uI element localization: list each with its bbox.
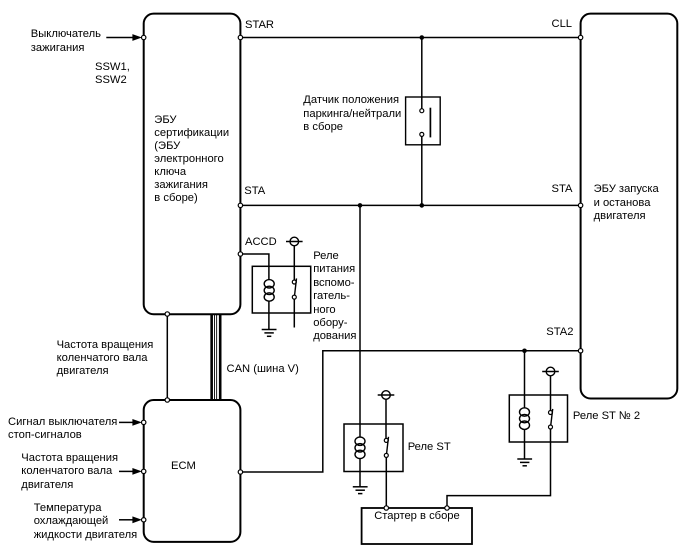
pin node STAR bbox=[238, 35, 242, 39]
pin node STA left bbox=[238, 203, 242, 207]
pin node starter from K2 bbox=[384, 506, 388, 510]
label K2 bbox=[408, 441, 451, 454]
junction STA to S1 bbox=[420, 203, 425, 208]
ECM U2 box bbox=[144, 400, 241, 542]
K3 coil L3 bbox=[520, 408, 530, 430]
label ECM bbox=[171, 460, 196, 473]
wire battery to K2 contact bbox=[385, 399, 387, 438]
label stop light signal bbox=[8, 416, 117, 442]
pin node ECM STA2 out bbox=[238, 470, 242, 474]
wire STA line bbox=[240, 204, 580, 206]
label crank speed upper bbox=[57, 339, 154, 378]
junction on STAR line bbox=[420, 35, 425, 40]
K2 coil L2 bbox=[355, 437, 365, 459]
crankshaft speed input arrow bbox=[119, 468, 142, 475]
pin node ECM crank speed bbox=[142, 469, 146, 473]
ECU U3 "ЭБУ запуска и останова двигателя" box bbox=[581, 14, 678, 399]
K3 battery terminal symbol bbox=[542, 367, 559, 376]
pin node ECM coolant bbox=[142, 518, 146, 522]
label K1 bbox=[313, 250, 356, 344]
park/neutral position switch S1 box bbox=[406, 97, 441, 145]
S1 contact circles and bar bbox=[420, 97, 431, 145]
net label SSW1 SSW2 bbox=[95, 61, 130, 88]
wire K3 contact to starter bbox=[447, 429, 551, 508]
wire S1 to STA line bbox=[421, 145, 423, 206]
label U3 bbox=[594, 183, 659, 224]
relay K2 "Реле ST" box bbox=[344, 424, 403, 472]
pin node ACCD bbox=[238, 252, 242, 256]
label CAN bus bbox=[227, 363, 299, 376]
wire K2 contact to starter bbox=[385, 457, 387, 508]
ground G1 bbox=[262, 330, 277, 337]
label crank speed lower bbox=[21, 452, 118, 492]
wire STAR line bbox=[240, 37, 580, 39]
pin node ECM stop light bbox=[142, 420, 146, 424]
relay K1 "Реле питания вспомогательного оборудования" box bbox=[252, 266, 310, 313]
K1 contact bbox=[292, 278, 296, 299]
pin node STA2 right bbox=[578, 349, 582, 353]
pin node ECM top bbox=[165, 398, 169, 402]
pin label STA right bbox=[552, 183, 573, 196]
starter assembly M1 box bbox=[362, 508, 472, 544]
wire STAR line to S1 bbox=[421, 38, 423, 98]
pin node STA right bbox=[578, 203, 582, 207]
label ignition switch bbox=[31, 28, 101, 55]
relay K3 "Реле ST № 2" box bbox=[509, 395, 567, 442]
pin node starter from K3 bbox=[445, 506, 449, 510]
wire U1 to ECM bbox=[166, 314, 168, 400]
pin label CLL bbox=[552, 18, 573, 31]
label park/neutral sensor bbox=[303, 94, 401, 134]
wire K2 coil to ground bbox=[359, 459, 361, 487]
wire K1 contact output stub bbox=[293, 299, 295, 327]
pin label STA2 bbox=[546, 326, 573, 339]
junction STA2 to K3 coil bbox=[522, 348, 527, 353]
pin label STA left bbox=[244, 185, 265, 198]
label coolant temperature bbox=[34, 502, 138, 542]
ECU U1 "ЭБУ сертификации" box bbox=[144, 14, 241, 315]
wire ECM to STA2 line bbox=[240, 351, 580, 472]
stop light switch input arrow bbox=[119, 419, 142, 426]
pin node ignition input bbox=[142, 35, 146, 39]
ground G3 bbox=[517, 459, 532, 466]
wire ACCD pin to K1 coil bbox=[240, 254, 269, 280]
coolant temperature input arrow bbox=[119, 516, 142, 523]
pin node CLL bbox=[578, 35, 582, 39]
K2 contact bbox=[384, 437, 388, 458]
label K3 bbox=[573, 410, 640, 423]
wire K3 coil to ground bbox=[524, 429, 526, 459]
K3 contact bbox=[549, 409, 553, 429]
ignition switch input arrow bbox=[106, 34, 142, 41]
wire battery to K3 contact bbox=[550, 376, 552, 411]
K1 battery terminal symbol bbox=[286, 237, 303, 246]
K2 battery terminal symbol bbox=[378, 391, 395, 400]
label starter assembly bbox=[374, 510, 460, 523]
pin label STAR bbox=[245, 19, 274, 32]
ground G2 bbox=[353, 487, 368, 494]
K1 coil L1 bbox=[264, 280, 274, 302]
CAN bus (шина V) bbox=[212, 314, 221, 400]
wire battery to K1 contact bbox=[293, 246, 295, 280]
wire STA branch to K2 coil bbox=[359, 205, 361, 437]
label U1 bbox=[154, 114, 229, 205]
junction STA to K2 coil bbox=[358, 203, 363, 208]
wire K1 coil to ground bbox=[268, 301, 270, 330]
pin label ACCD bbox=[245, 236, 277, 249]
pin node U1 bottom bbox=[165, 312, 169, 316]
wire STA2 branch to K3 coil bbox=[524, 351, 526, 408]
